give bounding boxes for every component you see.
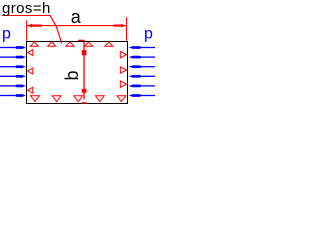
svg-text:gros=h: gros=h (2, 0, 51, 17)
svg-text:b: b (62, 70, 82, 80)
svg-text:p: p (2, 25, 11, 42)
svg-text:p: p (144, 25, 153, 42)
svg-text:a: a (71, 7, 82, 27)
